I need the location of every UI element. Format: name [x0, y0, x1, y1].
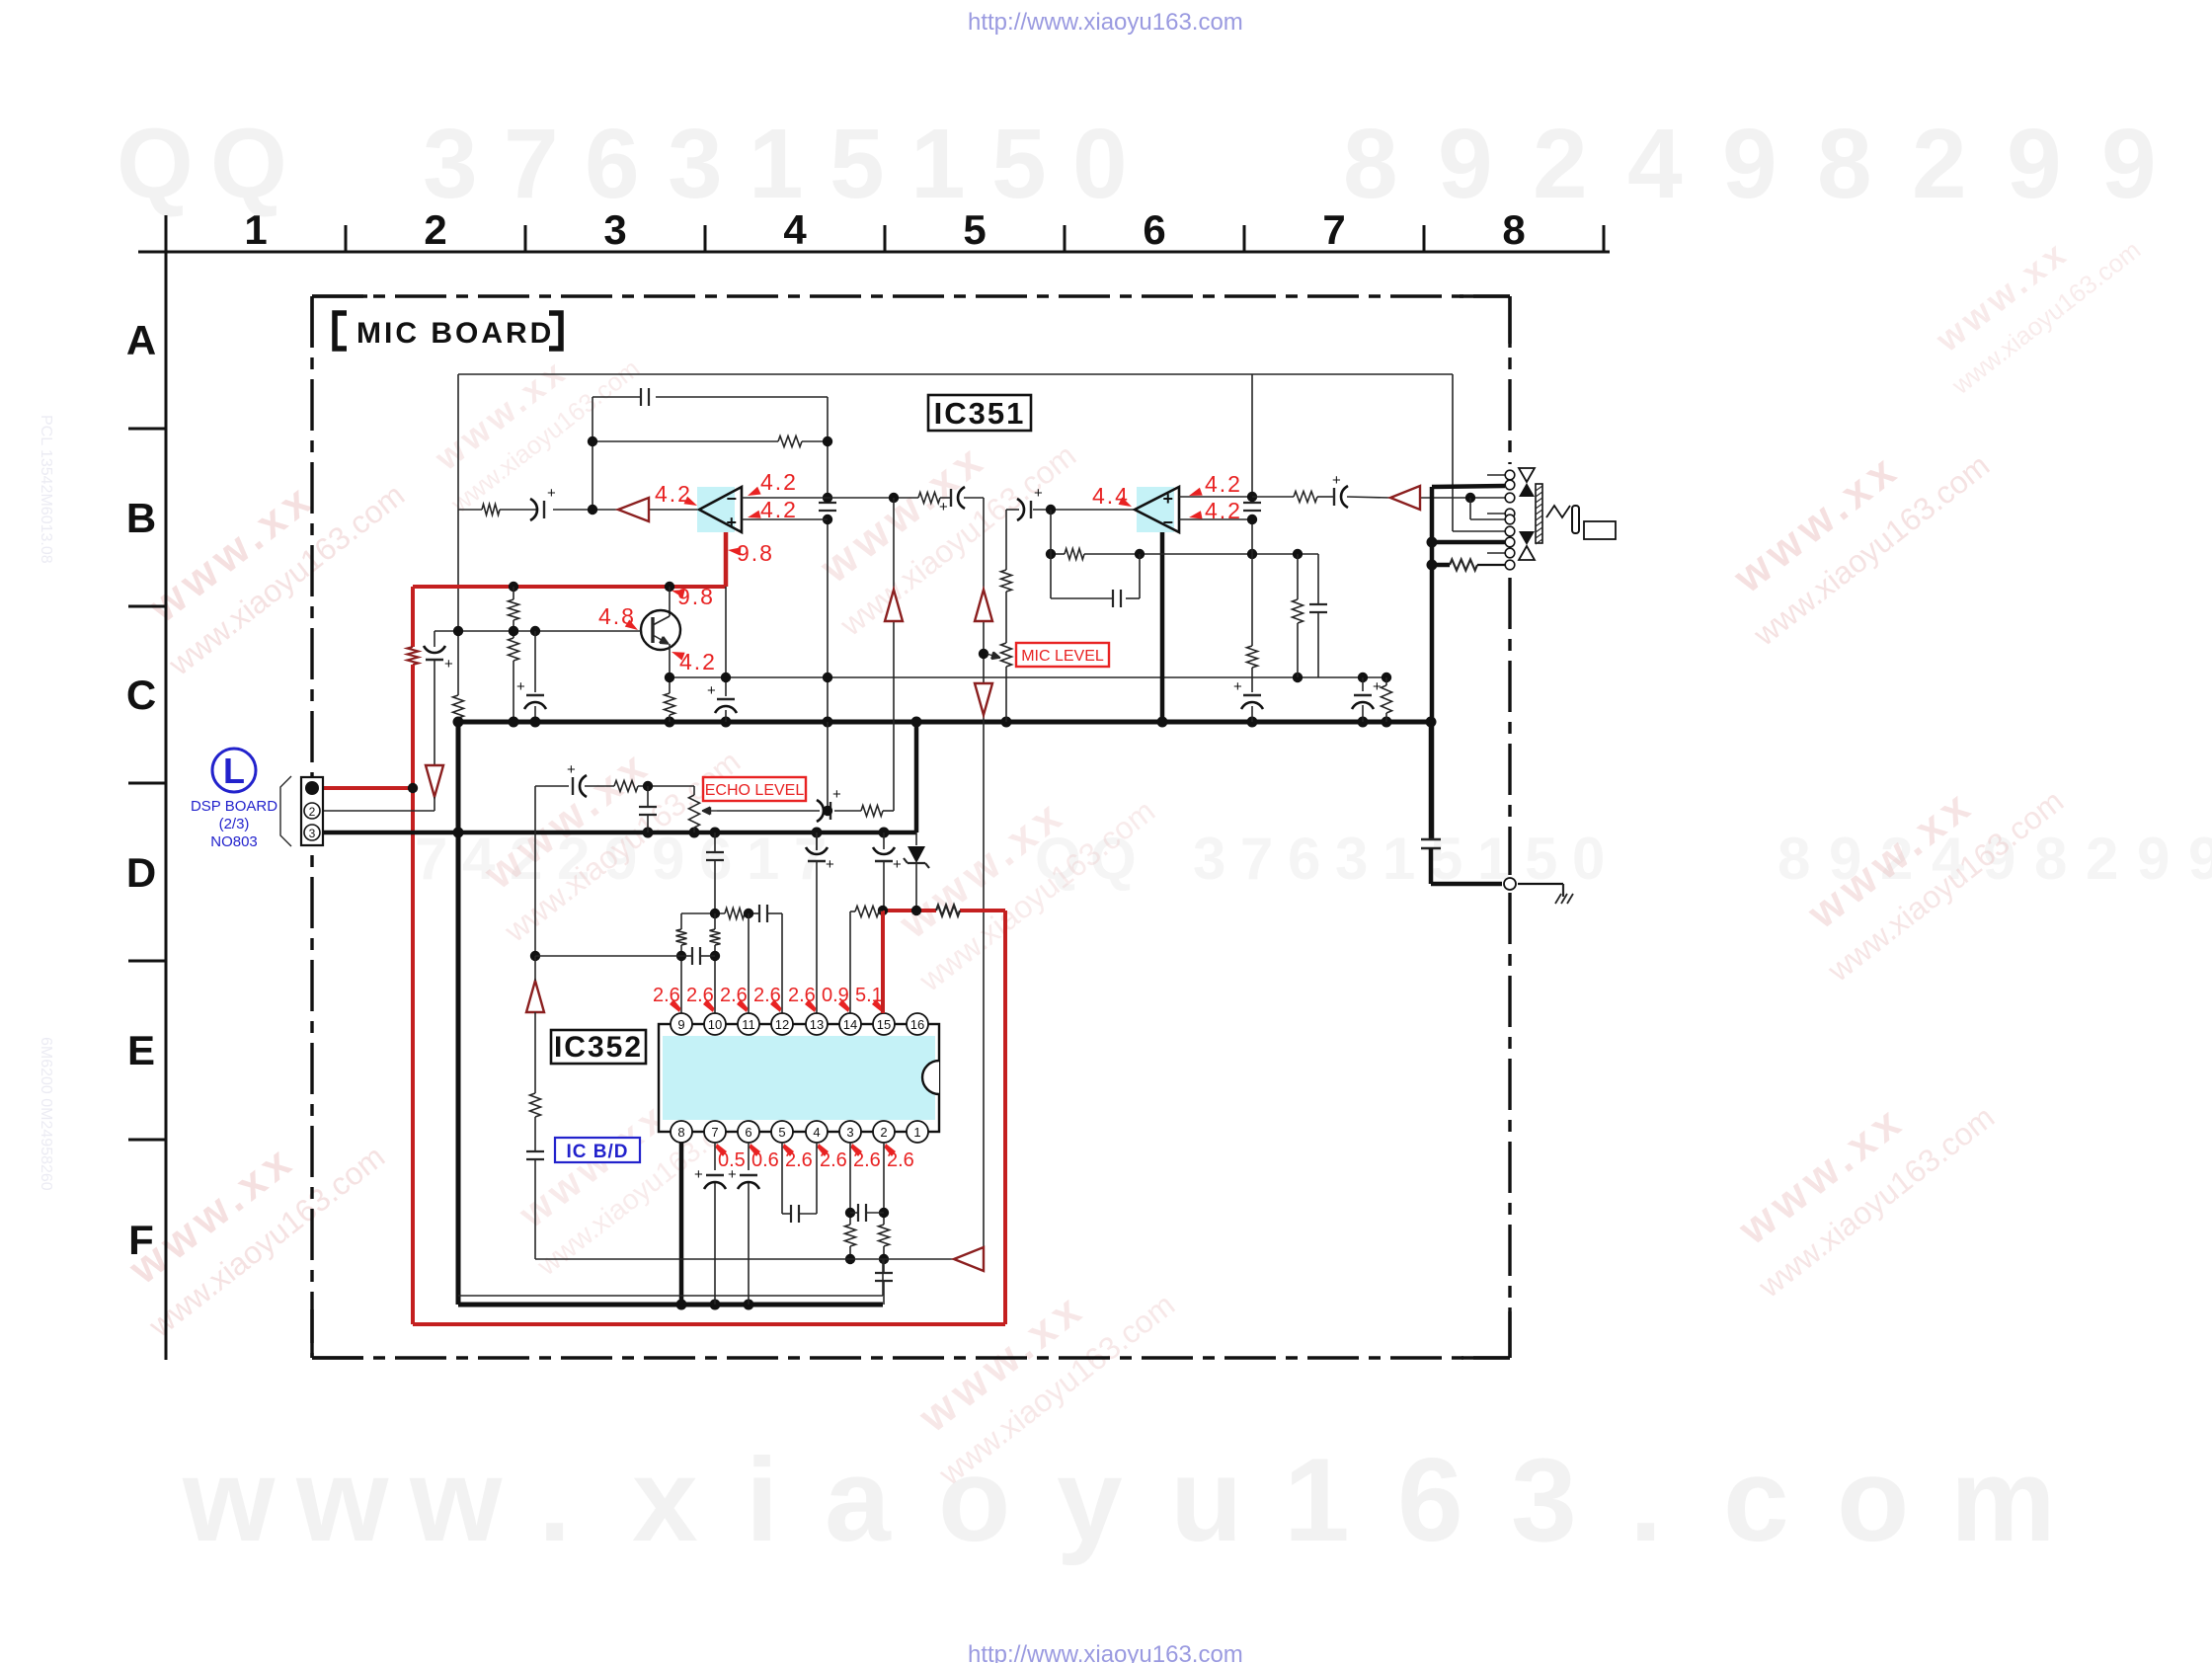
wire x1268 vertical — [1251, 374, 1253, 500]
svg-text:6M6200 0M24958260: 6M6200 0M24958260 — [38, 1037, 54, 1191]
svg-text:−: − — [726, 489, 737, 509]
svg-text:Q: Q — [117, 109, 194, 219]
cap on x838 between inputs — [819, 502, 836, 504]
thick to ground — [1431, 882, 1502, 887]
wire base y639 — [434, 630, 641, 632]
ECHO LEVEL pot x703 — [693, 786, 695, 795]
echo chain y796 — [535, 785, 569, 787]
svg-text:6: 6 — [1397, 1434, 1463, 1566]
thin bottom rect line y1312 — [458, 1295, 883, 1297]
DSP connector CN — [301, 777, 323, 845]
svg-text:11: 11 — [742, 1017, 755, 1032]
svg-text:2: 2 — [880, 1125, 887, 1140]
DSP brace — [280, 776, 291, 846]
MIC BOARD border corner joints — [312, 294, 367, 297]
wire x1064 — [1050, 510, 1052, 598]
svg-text:u: u — [1170, 1434, 1242, 1566]
op-amp U1 IC351a — [697, 487, 735, 532]
wire x520 two resistors — [513, 587, 514, 599]
svg-text:3: 3 — [603, 206, 626, 253]
svg-text:+: + — [826, 856, 834, 873]
svg-text:−: − — [1162, 513, 1173, 532]
marker triangle T8 — [954, 1247, 984, 1271]
DSP pin2 — [304, 803, 320, 819]
red wire bottom — [413, 1322, 1005, 1326]
pin12 riser — [781, 913, 783, 1014]
svg-text:8: 8 — [2034, 826, 2067, 892]
svg-text:4.2: 4.2 — [760, 469, 798, 495]
signal marker triangle T1 — [618, 498, 649, 521]
svg-text:9: 9 — [1438, 109, 1493, 219]
svg-text:+: + — [1162, 489, 1173, 509]
svg-text:F: F — [128, 1217, 154, 1263]
svg-text:7: 7 — [711, 1125, 718, 1140]
marker triangle up x905 — [885, 590, 903, 621]
svg-text:2: 2 — [309, 805, 316, 819]
svg-text:6: 6 — [585, 109, 640, 219]
marker triangle up x542 — [526, 981, 544, 1012]
svg-text:ECHO LEVEL: ECHO LEVEL — [705, 782, 805, 799]
svg-text:3: 3 — [668, 109, 723, 219]
svg-text:8: 8 — [677, 1125, 684, 1140]
IC351 label box — [928, 395, 1031, 431]
wire to jack y504 — [1252, 496, 1294, 498]
svg-text:6: 6 — [1143, 206, 1165, 253]
marker triangle down x440 — [426, 765, 443, 797]
svg-text:3: 3 — [1193, 826, 1225, 892]
wire inner top edge — [458, 373, 1453, 375]
svg-text:+: + — [444, 656, 453, 673]
jack switch upper — [1519, 468, 1535, 482]
ruler left line — [165, 215, 168, 1360]
svg-text:IC352: IC352 — [554, 1031, 643, 1064]
svg-text:12: 12 — [775, 1017, 789, 1032]
IC352 body — [659, 1024, 939, 1132]
wire right edge to jack pin5 — [1452, 374, 1454, 531]
wire x542 cap chain — [534, 631, 536, 692]
resistor on left edge x464 — [453, 695, 464, 718]
svg-text:MIC LEVEL: MIC LEVEL — [1021, 648, 1104, 665]
svg-text:1: 1 — [244, 206, 267, 253]
svg-text:2: 2 — [424, 206, 446, 253]
pin10 riser with resistor — [714, 913, 716, 929]
y925 row — [681, 912, 725, 914]
svg-text:PCL 13542M6013.08: PCL 13542M6013.08 — [38, 415, 54, 564]
svg-text:1: 1 — [910, 109, 966, 219]
pin13 riser — [816, 832, 818, 850]
wire x838 below bus — [827, 722, 829, 811]
jack stubs — [1487, 474, 1505, 476]
svg-text:.: . — [538, 1434, 571, 1566]
svg-text:+: + — [832, 786, 841, 803]
svg-text:y: y — [1057, 1434, 1123, 1566]
svg-text:9: 9 — [2188, 826, 2212, 892]
svg-text:4.2: 4.2 — [760, 497, 798, 522]
wire inner left edge — [457, 374, 459, 695]
wire emitter x678 — [669, 644, 671, 677]
svg-text:m: m — [1950, 1434, 2056, 1566]
svg-text:7: 7 — [1322, 206, 1345, 253]
svg-text:E: E — [127, 1027, 155, 1073]
wire x996 vertical — [983, 498, 985, 1259]
svg-text:7: 7 — [415, 826, 447, 892]
svg-text:3: 3 — [846, 1125, 853, 1140]
IC352 label box — [551, 1030, 646, 1064]
zener diode x928 — [915, 832, 917, 845]
IC B/D label box — [555, 1138, 640, 1162]
svg-text:0: 0 — [1072, 109, 1128, 219]
jack thick wires — [1432, 486, 1505, 487]
wire x542 echo vertical — [534, 786, 536, 956]
svg-text:+: + — [1373, 678, 1382, 695]
svg-text:4: 4 — [1627, 109, 1683, 219]
red wire right x1018 — [1003, 911, 1007, 1324]
svg-text:c: c — [1723, 1434, 1789, 1566]
DSP pin1 — [305, 781, 319, 795]
svg-text:1: 1 — [749, 109, 804, 219]
svg-text:+: + — [893, 856, 902, 873]
pin11 riser — [748, 913, 750, 1014]
MIC LEVEL box — [1016, 643, 1109, 667]
wire x600 vertical — [592, 397, 593, 510]
svg-text:0: 0 — [1572, 826, 1605, 892]
wire pin4 jog — [1469, 498, 1471, 519]
thick bottom wire y1321 — [458, 1303, 883, 1307]
MIC BOARD border — [312, 294, 1510, 297]
emitter line y686 — [670, 676, 1386, 678]
svg-text:9: 9 — [677, 1017, 684, 1032]
svg-text:9: 9 — [2007, 109, 2062, 219]
svg-text:1: 1 — [1382, 826, 1415, 892]
pin2 chain — [883, 1143, 885, 1225]
echo wiper chain y821 — [702, 810, 717, 812]
wire x905 vertical — [893, 498, 895, 811]
cap x827 electrolytic — [816, 832, 818, 850]
MIC LEVEL pot x1019 — [1005, 510, 1007, 570]
y968 row with cap — [535, 955, 681, 957]
thick x1449 below bus — [1429, 722, 1434, 838]
DSP L circle — [212, 749, 256, 792]
svg-text:4: 4 — [813, 1125, 820, 1140]
jack hatched bar — [1536, 484, 1542, 543]
red wire op-amp1 output 9.8 — [724, 532, 729, 587]
cap loop y606 — [1051, 597, 1112, 599]
ground — [1562, 884, 1564, 897]
svg-text:+: + — [567, 761, 576, 778]
svg-text:3: 3 — [423, 109, 478, 219]
svg-text:5: 5 — [778, 1125, 785, 1140]
thick wire x464 down — [456, 722, 461, 1305]
jack sleeve — [1572, 506, 1579, 533]
svg-text:13: 13 — [810, 1017, 824, 1032]
svg-text:D: D — [126, 849, 156, 896]
pin9 riser with resistor — [680, 913, 682, 929]
jack label rect — [1584, 521, 1616, 539]
svg-text:3: 3 — [1335, 826, 1368, 892]
svg-text:C: C — [126, 672, 156, 718]
svg-text:+: + — [1332, 472, 1341, 489]
svg-text:NO803: NO803 — [210, 833, 258, 850]
wire x838 vertical — [827, 397, 829, 500]
svg-text:w: w — [295, 1434, 389, 1566]
res pin14 to red — [850, 911, 855, 912]
svg-text:2: 2 — [1533, 109, 1588, 219]
pin7 cap — [714, 1143, 716, 1170]
red wire pin15 riser — [881, 911, 885, 1013]
red wire x418 with resistor — [411, 587, 415, 647]
IC352 pin circles — [671, 1013, 692, 1035]
R C to emitter line x1314/x1335 — [1297, 554, 1299, 599]
svg-text:w: w — [182, 1434, 276, 1566]
pin8 thick — [679, 1143, 684, 1305]
minus line to right chain — [828, 497, 918, 499]
svg-text:3: 3 — [1511, 1434, 1577, 1566]
thick wire DSP pin3 y843 — [323, 831, 916, 835]
svg-text:9.8: 9.8 — [737, 540, 774, 566]
cap below pin2 — [883, 1259, 885, 1272]
svg-text:9: 9 — [2137, 826, 2170, 892]
wire x440 chain (DSP pin2) — [434, 631, 435, 647]
svg-text:L: L — [223, 751, 245, 791]
svg-text:+: + — [694, 1166, 703, 1183]
svg-text:6: 6 — [745, 1125, 751, 1140]
svg-text:http://www.xiaoyu163.com: http://www.xiaoyu163.com — [968, 1641, 1243, 1663]
resistor main line — [482, 505, 500, 515]
feedback y561 — [1051, 553, 1065, 555]
svg-text:3: 3 — [309, 827, 316, 840]
svg-text:6: 6 — [1288, 826, 1320, 892]
transistor Q — [641, 610, 680, 650]
svg-text:+: + — [1233, 678, 1242, 695]
pins 5-4 loop — [781, 1143, 783, 1214]
wire main signal y516 — [458, 509, 482, 511]
svg-text:+: + — [547, 485, 556, 502]
svg-text:A: A — [126, 317, 156, 363]
svg-text:4: 4 — [783, 206, 807, 253]
svg-text:x: x — [632, 1434, 698, 1566]
pin14 riser — [849, 911, 851, 1014]
svg-text:4.2: 4.2 — [679, 649, 717, 674]
svg-text:http://www.xiaoyu163.com: http://www.xiaoyu163.com — [968, 9, 1243, 36]
svg-text:7: 7 — [794, 826, 827, 892]
ruler top line — [138, 251, 1610, 254]
svg-text:2: 2 — [2086, 826, 2118, 892]
svg-text:5: 5 — [829, 109, 885, 219]
op-amp U2 IC351b — [1137, 487, 1174, 532]
svg-text:7: 7 — [504, 109, 559, 219]
svg-text:w: w — [409, 1434, 503, 1566]
cap x895 — [883, 832, 885, 849]
svg-text:2: 2 — [1912, 109, 1967, 219]
svg-text:(2/3): (2/3) — [219, 816, 250, 832]
svg-text:15: 15 — [877, 1017, 891, 1032]
emitter resistor x678 — [669, 677, 671, 693]
red wire x894 to pin15 — [881, 911, 885, 1014]
marker triangle up x996 — [975, 590, 992, 621]
jack pin circles — [1505, 470, 1515, 480]
cap main line electrolytic — [543, 501, 545, 518]
jack spring contact — [1546, 506, 1570, 517]
svg-text:14: 14 — [843, 1017, 857, 1032]
cap pins3-2 — [850, 1212, 857, 1214]
red wire y922 — [883, 909, 936, 912]
svg-text:4.2: 4.2 — [1205, 498, 1242, 523]
feedback cap line y402 — [592, 396, 640, 398]
wire collector x678 — [669, 587, 671, 616]
svg-text:+: + — [726, 513, 737, 532]
svg-text:+: + — [516, 678, 525, 695]
svg-text:o: o — [1837, 1434, 1909, 1566]
svg-text:+: + — [707, 682, 716, 699]
svg-text:4.2: 4.2 — [1205, 471, 1242, 497]
svg-text:+: + — [1034, 485, 1043, 502]
red wire DSP pin1 — [323, 786, 413, 790]
svg-text:1: 1 — [913, 1125, 920, 1140]
cap x735 — [725, 587, 727, 677]
pin3 chain — [849, 1143, 851, 1225]
svg-text:B: B — [126, 495, 156, 541]
svg-text:.: . — [1629, 1434, 1662, 1566]
svg-text:5: 5 — [991, 109, 1047, 219]
svg-text:8: 8 — [1343, 109, 1398, 219]
pin6 cap — [748, 1143, 750, 1170]
svg-text:1: 1 — [747, 826, 779, 892]
thick x928 bus to y843 — [914, 722, 919, 832]
svg-text:IC B/D: IC B/D — [567, 1142, 629, 1162]
watermark giant bottom text — [182, 1434, 2056, 1566]
svg-text:Q: Q — [210, 109, 287, 219]
jack switch lower — [1519, 531, 1535, 545]
op-amp2 output line y516 — [1006, 509, 1019, 511]
op-amp1 input lines — [742, 497, 828, 499]
MIC BOARD label — [335, 313, 347, 349]
ruler row ticks — [128, 428, 166, 431]
svg-text:+: + — [939, 499, 948, 515]
ECHO LEVEL box — [703, 777, 806, 801]
svg-text:9: 9 — [1722, 109, 1777, 219]
marker triangle T2 — [1390, 486, 1420, 510]
DSP pin3 — [304, 825, 320, 840]
svg-text:5: 5 — [1525, 826, 1557, 892]
svg-text:8: 8 — [1777, 826, 1810, 892]
thick black op-amp2 gnd x1177 — [1160, 532, 1165, 722]
cap x724 upper — [714, 832, 716, 851]
cap x656 — [647, 786, 649, 806]
svg-text:9: 9 — [2101, 109, 2157, 219]
svg-text:MIC BOARD: MIC BOARD — [356, 317, 554, 350]
wire y1275 — [535, 1258, 954, 1260]
svg-text:a: a — [825, 1434, 892, 1566]
svg-text:1: 1 — [1284, 1434, 1350, 1566]
svg-text:5: 5 — [963, 206, 986, 253]
feedback res line y447 — [592, 440, 778, 442]
marker triangle down x996 — [975, 683, 992, 715]
svg-text:10: 10 — [708, 1017, 722, 1032]
svg-text:8: 8 — [1502, 206, 1525, 253]
svg-text:IC351: IC351 — [934, 396, 1026, 431]
watermark diagonal pink — [123, 429, 411, 682]
ground bus thick y731 — [458, 720, 1431, 725]
svg-text:+: + — [728, 1166, 737, 1183]
svg-text:8: 8 — [1817, 109, 1872, 219]
svg-text:DSP BOARD: DSP BOARD — [191, 798, 277, 815]
svg-text:i: i — [746, 1434, 778, 1566]
watermark ghost digits top — [117, 109, 2157, 219]
ruler column ticks — [345, 225, 348, 252]
cap x1380 — [1362, 677, 1364, 691]
red wire horizontal y594 — [413, 585, 726, 589]
res x1404 — [1385, 677, 1387, 685]
watermark ghost digits middle — [415, 826, 2212, 892]
wire pin5 — [1453, 530, 1505, 532]
svg-text:7: 7 — [1240, 826, 1273, 892]
op-amp2 input lines — [1179, 496, 1252, 498]
svg-text:16: 16 — [910, 1017, 924, 1032]
